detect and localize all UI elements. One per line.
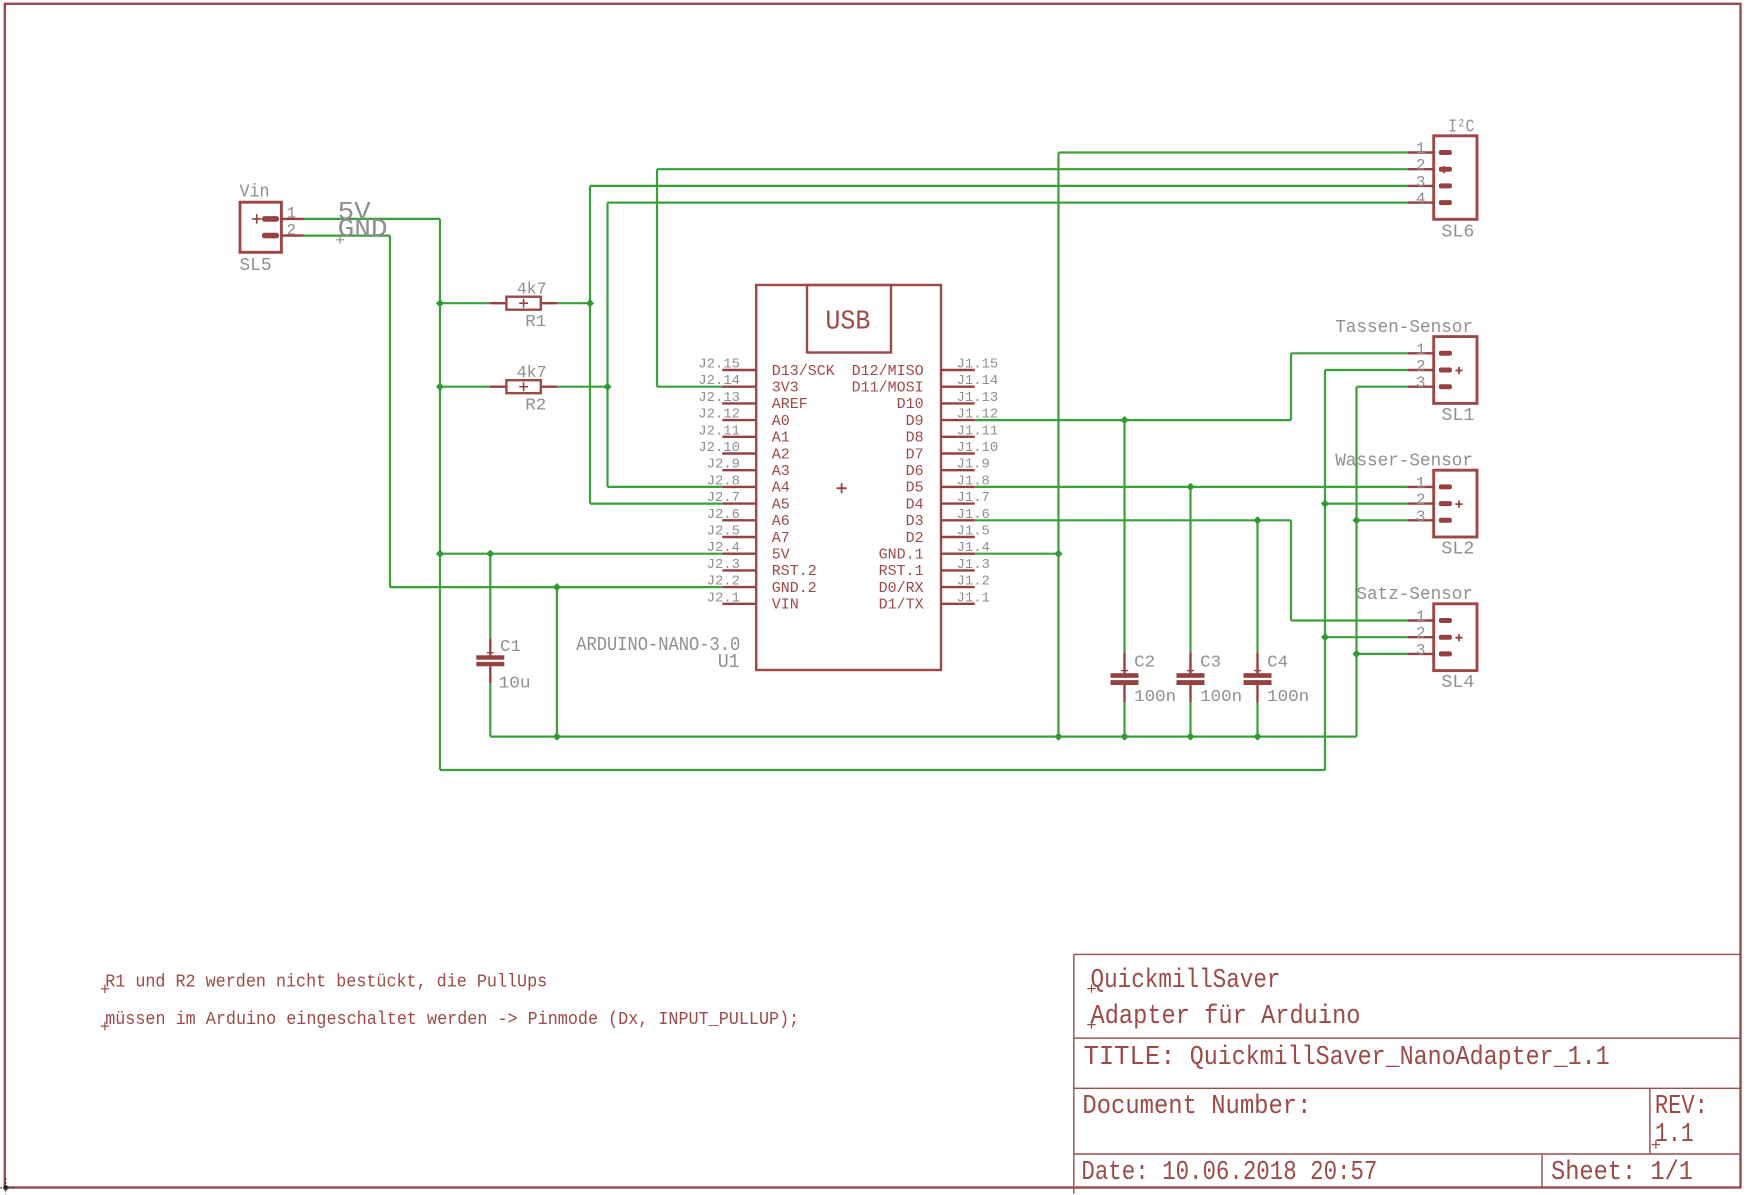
svg-text:D1/TX: D1/TX [879,597,924,614]
svg-text:R1: R1 [525,313,546,332]
SL4 pin 3 lead [1408,653,1434,655]
U1 left pin J2.2 [722,586,756,588]
svg-text:REV:: REV: [1655,1092,1708,1122]
capacitor C2 symbol [1111,653,1139,703]
svg-text:J2.10: J2.10 [698,440,740,456]
U1 right pin J1.6 [941,519,975,521]
svg-text:GND: GND [338,214,388,244]
junction C4 bottom at bus [1253,733,1261,741]
svg-text:A5: A5 [772,496,790,513]
wire SL1 pin1 row [1291,352,1408,354]
net label GND origin cross [336,236,344,244]
junction C2 top / D9 [1120,416,1128,424]
wire J1.4 row (GND.1) [975,553,1059,555]
svg-text:D9: D9 [906,413,924,430]
svg-text:J1.10: J1.10 [957,440,999,456]
U1 left pin J2.9 [722,469,756,471]
capacitor C3 bottom wire [1189,702,1191,736]
svg-text:J2.2: J2.2 [707,574,740,590]
U1 right pin J1.9 [941,469,975,471]
svg-text:1: 1 [1416,140,1426,158]
capacitor C1 bottom wire [489,683,491,737]
note line 1 origin cross [101,985,109,993]
svg-text:J1.11: J1.11 [957,423,999,439]
svg-text:J2.6: J2.6 [707,507,740,523]
svg-text:3: 3 [1416,508,1426,526]
connector SL4 pads [1439,618,1452,656]
svg-text:C1: C1 [500,638,521,657]
wire J1.6 row (D3) [975,519,1291,521]
svg-text:QuickmillSaver: QuickmillSaver [1091,966,1281,996]
SL5 pin 1 lead [281,218,303,220]
svg-text:J1.4: J1.4 [957,540,990,556]
connector SL4 body [1434,604,1477,671]
svg-text:J1.12: J1.12 [957,407,999,423]
svg-text:1: 1 [1416,608,1426,626]
SL1 pin 2 lead [1408,369,1434,371]
svg-text:100n: 100n [1134,688,1176,707]
svg-text:J1.9: J1.9 [957,457,990,473]
capacitor C1 top wire [489,554,491,639]
svg-text:D6: D6 [906,463,924,480]
U1 right pin J1.12 [941,419,975,421]
junction C4 top / D3 [1253,516,1261,524]
connector SL6 pads [1439,150,1452,205]
svg-text:J2.4: J2.4 [707,540,740,556]
svg-text:Sheet: 1/1: Sheet: 1/1 [1551,1158,1693,1188]
wire SL6 pin2 row (3V3) [657,168,1408,170]
svg-text:Date: 10.06.2018 20:57: Date: 10.06.2018 20:57 [1081,1158,1377,1188]
wire 5V from SL5 pin1 [304,218,441,220]
SL6 pin 4 lead [1408,201,1434,203]
U1 left pin J2.14 [722,386,756,388]
svg-text:J1.1: J1.1 [957,590,990,606]
connector SL1 origin cross [1455,367,1462,374]
svg-text:3: 3 [1416,173,1426,191]
svg-text:D7: D7 [906,446,924,463]
svg-text:VIN: VIN [772,597,799,614]
svg-text:2: 2 [1416,157,1426,175]
svg-text:müssen im Arduino eingeschalte: müssen im Arduino eingeschaltet werden -… [105,1010,799,1030]
svg-text:A7: A7 [772,530,790,547]
U1 left pin J2.1 [722,603,756,605]
wire R1 right segment [557,302,590,304]
capacitor C2 top wire [1123,420,1125,652]
svg-text:J2.7: J2.7 [707,490,740,506]
svg-text:J2.1: J2.1 [707,590,740,606]
wire SL4 pin2 row (5V) [1325,636,1408,638]
svg-text:RST.2: RST.2 [772,563,817,580]
junction sensor 5V at SL2 pin2 [1321,500,1329,508]
svg-text:1: 1 [1416,474,1426,492]
U1 right pin J1.14 [941,386,975,388]
title block project name origin cross [1087,984,1095,992]
capacitor C1 symbol [476,638,504,683]
U1 left pin J2.8 [722,486,756,488]
U1 left pin J2.10 [722,452,756,454]
connector SL6 body [1434,136,1477,220]
wire GND bus [490,735,1356,737]
SL2 pin 1 lead [1408,486,1434,488]
connector SL6 origin cross [1440,166,1447,173]
svg-text:D0/RX: D0/RX [879,580,924,597]
wire D3 vertical to SL4 [1290,520,1292,620]
svg-text:A3: A3 [772,463,790,480]
arduino U1 USB box [807,285,891,353]
wire GND vertical from SL5 [389,236,391,587]
SL1 pin 1 lead [1408,352,1434,354]
svg-text:D3: D3 [906,513,924,530]
wire J2.7 row [590,503,722,505]
junction 5V / R1 left [436,299,444,307]
svg-text:J1.6: J1.6 [957,507,990,523]
wire SL1 pin2 row (5V) [1325,369,1408,371]
connector SL5 body [240,202,281,252]
junction C1 top / 5V [486,550,494,558]
svg-text:AREF: AREF [772,396,808,413]
wire 5V vertical main [439,219,441,770]
svg-text:U1: U1 [718,651,740,673]
svg-text:SL4: SL4 [1441,673,1474,693]
U1 left pin J2.12 [722,419,756,421]
junction sensor GND at SL4 pin3 [1352,650,1360,658]
svg-text:2: 2 [1416,625,1426,643]
capacitor C2 bottom wire [1123,702,1125,736]
wire SL2 pin2 row (5V) [1325,503,1408,505]
junction I2C GND at bus [1054,733,1062,741]
U1 right pin J1.2 [941,586,975,588]
wire J1.12 row (D9) [975,419,1291,421]
capacitor C4 top wire [1256,520,1258,652]
wire J1.8 row (D5) to SL2 pin1 [975,486,1408,488]
svg-text:J2.13: J2.13 [698,390,740,406]
connector SL5 pads [262,216,279,238]
connector SL5 origin cross [252,214,262,224]
wire GND row to J2.2 [390,586,722,588]
junction C3 top / D5 [1186,483,1194,491]
svg-text:SL6: SL6 [1441,223,1474,243]
svg-text:J2.8: J2.8 [707,473,740,489]
svg-text:4k7: 4k7 [517,280,547,299]
wire GND branch vertical under GND.2 [556,587,558,737]
junction GND row [553,583,561,591]
svg-text:D8: D8 [906,430,924,447]
U1 right pin J1.7 [941,502,975,504]
wire GND from SL5 pin2 [304,235,391,237]
svg-text:C2: C2 [1134,653,1155,672]
U1 left pin J2.7 [722,502,756,504]
svg-text:J1.3: J1.3 [957,557,990,573]
svg-text:C3: C3 [1200,653,1221,672]
connector SL4 origin cross [1455,634,1462,641]
junction GND bus left [553,733,561,741]
resistor R1 symbol [490,297,558,310]
svg-text:5V: 5V [772,547,790,564]
wire sensors GND vertical [1355,387,1357,737]
svg-text:R1 und R2 werden nicht bestück: R1 und R2 werden nicht bestückt, die Pul… [105,973,547,993]
svg-text:J2.11: J2.11 [698,423,740,439]
svg-text:1.1: 1.1 [1655,1120,1694,1150]
svg-text:3V3: 3V3 [772,380,799,397]
svg-text:10u: 10u [499,674,531,693]
svg-text:A2: A2 [772,446,790,463]
SL5 pin 2 lead [281,234,303,236]
wire SL4 pin1 row [1291,619,1408,621]
svg-text:1: 1 [1416,341,1426,359]
connector SL2 body [1434,470,1477,537]
title block subtitle origin cross [1087,1020,1095,1028]
SL4 pin 1 lead [1408,619,1434,621]
svg-text:SL1: SL1 [1441,406,1474,426]
svg-text:J1.14: J1.14 [957,373,999,389]
arduino U1 origin cross [837,483,847,493]
svg-text:SL2: SL2 [1441,540,1474,560]
svg-text:SL5: SL5 [240,256,272,276]
svg-text:4: 4 [1416,190,1426,208]
svg-text:J1.15: J1.15 [957,357,999,373]
svg-text:2: 2 [1416,358,1426,376]
U1 left pin J2.15 [722,369,756,371]
svg-text:D2: D2 [906,530,924,547]
capacitor C4 symbol [1244,653,1272,703]
svg-text:Tassen-Sensor: Tassen-Sensor [1335,318,1473,338]
svg-text:J1.7: J1.7 [957,490,990,506]
wire R2 right segment [557,386,607,388]
wire SL6 pin1 row (GND) [1059,151,1408,153]
svg-text:J1.13: J1.13 [957,390,999,406]
wire SL4 pin3 row (GND) [1357,653,1408,655]
junction C2 bottom at bus [1120,733,1128,741]
U1 left pin J2.11 [722,436,756,438]
capacitor C3 symbol [1177,653,1205,703]
wire J2.14 row [657,386,722,388]
U1 right pin J1.13 [941,402,975,404]
U1 left pin J2.4 [722,553,756,555]
U1 left pin J2.5 [722,536,756,538]
connector SL1 pads [1439,351,1452,389]
junction sensor GND at SL2 pin3 [1352,516,1360,524]
svg-text:D13/SCK: D13/SCK [772,363,835,380]
junction 5V / R2 left [436,383,444,391]
wire SL2 pin3 row (GND) [1357,519,1408,521]
U1 left pin J2.6 [722,519,756,521]
svg-text:1: 1 [287,205,297,223]
svg-text:2: 2 [1416,491,1426,509]
svg-text:Document Number:: Document Number: [1082,1092,1311,1122]
capacitor C3 top wire [1189,487,1191,653]
U1 right pin J1.8 [941,486,975,488]
junction GND.1 / I2C vertical [1054,550,1062,558]
svg-text:J2.12: J2.12 [698,407,740,423]
SL6 pin 2 lead [1408,168,1434,170]
junction R2 right / SCL [603,383,611,391]
resistor R2 symbol [490,380,558,393]
wire I2C GND vertical [1057,153,1059,737]
wire sensors 5V vertical [1324,370,1326,770]
svg-text:D10: D10 [897,396,924,413]
wire R2 left segment [440,386,490,388]
svg-text:J2.3: J2.3 [707,557,740,573]
svg-text:A4: A4 [772,480,790,497]
wire 5V bus [440,769,1325,771]
U1 right pin J1.15 [941,369,975,371]
U1 right pin J1.10 [941,452,975,454]
svg-text:R2: R2 [525,397,546,416]
svg-text:Adapter für Arduino: Adapter für Arduino [1091,1002,1361,1032]
connector SL2 origin cross [1455,501,1462,508]
title block lines [1074,954,1740,1193]
svg-text:2: 2 [287,221,297,239]
svg-text:RST.1: RST.1 [879,563,924,580]
wire D9 vertical to SL1 [1290,353,1292,420]
wire SDA vertical (R1 to J2.7 and SL6.3) [589,186,591,504]
svg-text:D12/MISO: D12/MISO [852,363,924,380]
U1 right pin J1.5 [941,536,975,538]
U1 left pin J2.13 [722,402,756,404]
svg-text:TITLE:: TITLE: [1084,1043,1176,1073]
svg-text:J1.2: J1.2 [957,574,990,590]
SL4 pin 2 lead [1408,636,1434,638]
junction R1 right / SDA [586,299,594,307]
capacitor C4 bottom wire [1256,702,1258,736]
wire R1 left segment [440,302,490,304]
svg-text:J2.15: J2.15 [698,357,740,373]
connector SL2 pads [1439,484,1452,522]
svg-text:A0: A0 [772,413,790,430]
svg-text:D5: D5 [906,480,924,497]
svg-text:100n: 100n [1200,688,1242,707]
svg-text:A6: A6 [772,513,790,530]
wire SCL vertical (R2 to J2.8 and SL6.4) [606,203,608,487]
junction sensor 5V at SL4 pin2 [1321,633,1329,641]
svg-text:Vin: Vin [240,183,270,203]
note line 2 origin cross [101,1022,109,1030]
wire SL6 pin4 row (SCL) [608,202,1408,204]
connector SL1 body [1434,337,1477,404]
junction C3 bottom at bus [1186,733,1194,741]
svg-text:A1: A1 [772,430,790,447]
svg-text:GND.1: GND.1 [879,547,924,564]
svg-text:J2.5: J2.5 [707,524,740,540]
U1 right pin J1.4 [941,553,975,555]
svg-text:100n: 100n [1267,688,1309,707]
svg-text:J2.14: J2.14 [698,373,740,389]
svg-text:J1.5: J1.5 [957,524,990,540]
svg-text:4k7: 4k7 [517,364,547,383]
svg-text:J1.8: J1.8 [957,473,990,489]
svg-text:QuickmillSaver_NanoAdapter_1.1: QuickmillSaver_NanoAdapter_1.1 [1190,1043,1610,1073]
wire SL1 pin3 row (GND) [1357,386,1408,388]
svg-text:D4: D4 [906,496,924,513]
svg-text:USB: USB [825,307,870,337]
U1 right pin J1.1 [941,603,975,605]
SL6 pin 3 lead [1408,185,1434,187]
sheet origin marker [1,1179,16,1195]
wire SL6 pin3 row (SDA) [590,185,1408,187]
SL2 pin 2 lead [1408,502,1434,504]
svg-text:GND.2: GND.2 [772,580,817,597]
U1 right pin J1.11 [941,436,975,438]
svg-text:3: 3 [1416,641,1426,659]
svg-text:C4: C4 [1267,653,1288,672]
SL1 pin 3 lead [1408,386,1434,388]
U1 left pin J2.3 [722,569,756,571]
svg-text:ARDUINO-NANO-3.0: ARDUINO-NANO-3.0 [576,634,740,656]
SL2 pin 3 lead [1408,519,1434,521]
svg-text:3: 3 [1416,374,1426,392]
wire J2.8 row [608,486,723,488]
arduino nano U1 body [756,285,941,670]
svg-text:J2.9: J2.9 [707,457,740,473]
wire 3V3 vertical [656,169,658,387]
svg-text:Wasser-Sensor: Wasser-Sensor [1335,452,1473,472]
title block REV origin cross [1652,1140,1660,1148]
junction 5V row [436,550,444,558]
U1 right pin J1.3 [941,569,975,571]
svg-text:Satz-Sensor: Satz-Sensor [1356,585,1473,605]
wire 5V row to J2.4 [440,553,722,555]
SL6 pin 1 lead [1408,151,1434,153]
svg-text:D11/MOSI: D11/MOSI [852,380,924,397]
